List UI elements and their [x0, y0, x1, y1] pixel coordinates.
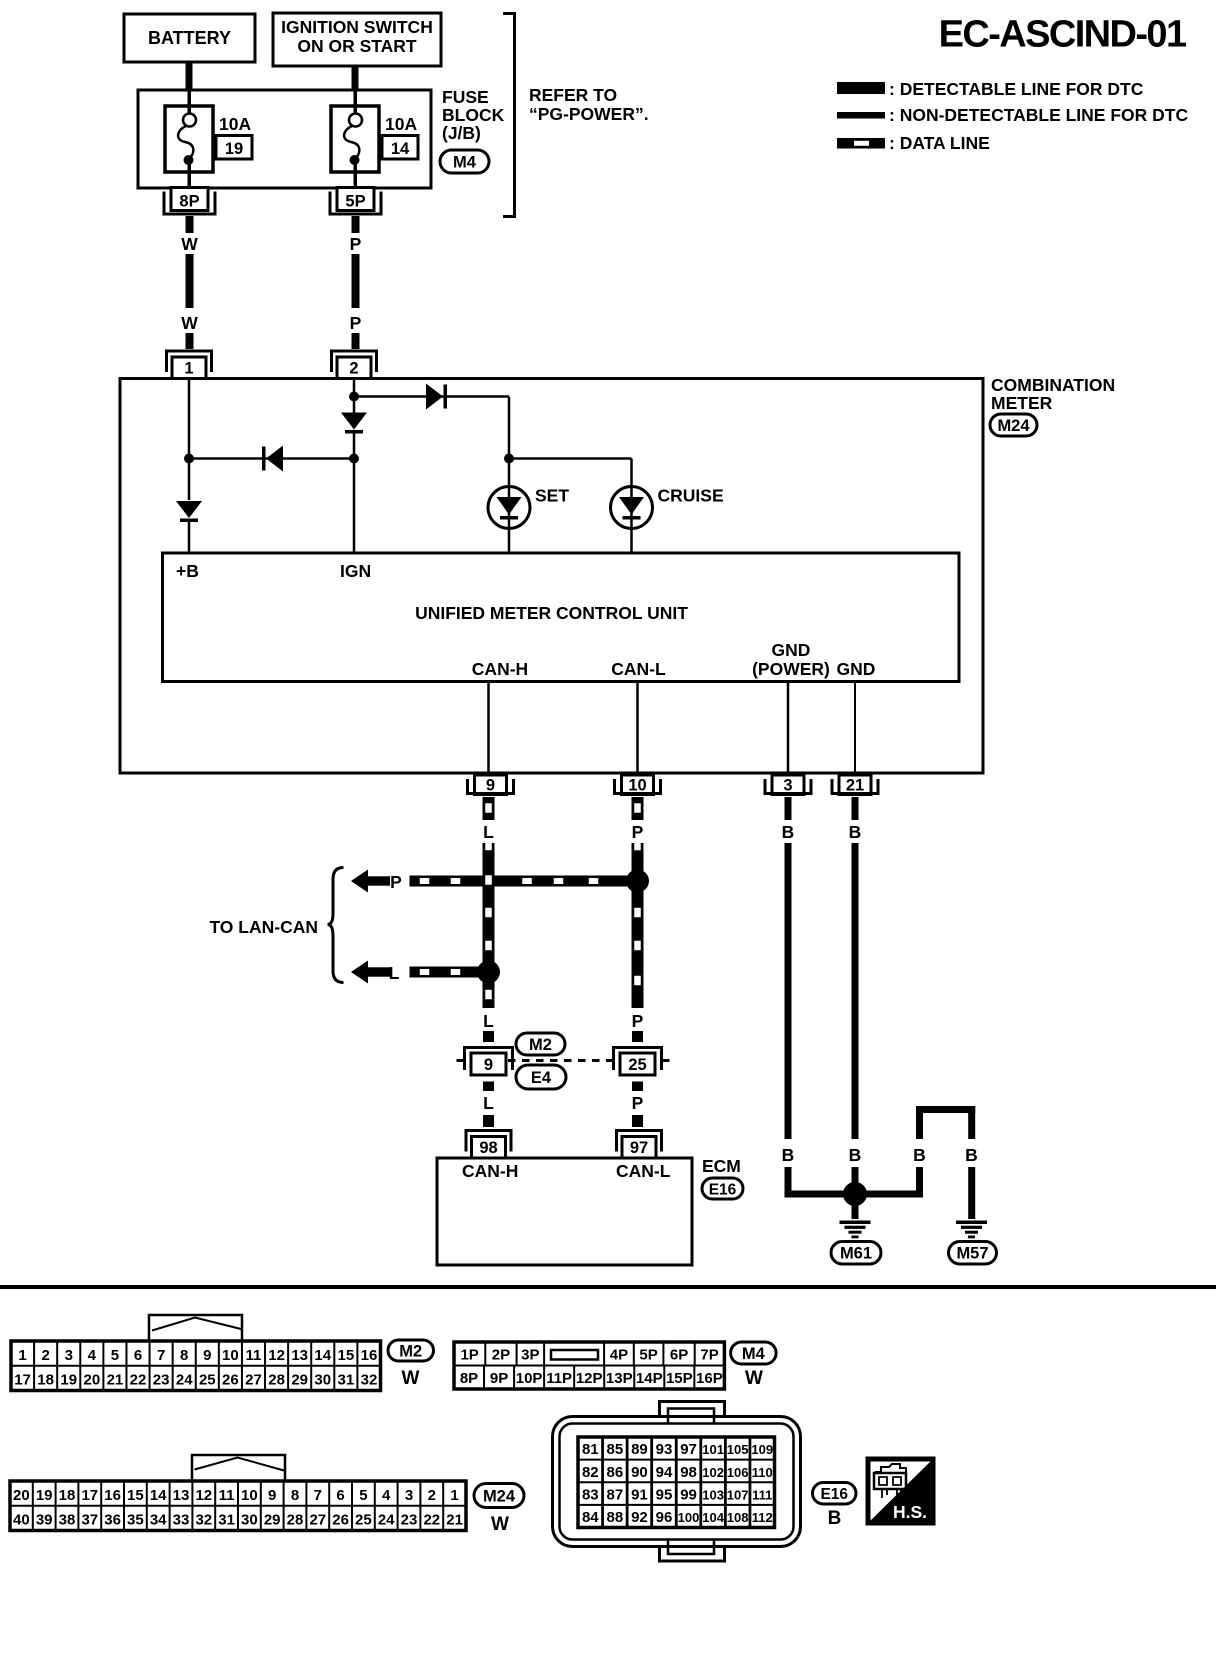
- wire fuse 14 to connector 5P: [354, 160, 358, 188]
- svg-text:107: 107: [727, 1487, 749, 1502]
- connector id oval M24 (meter): [990, 414, 1037, 436]
- terminal 21 (meter GND): [839, 775, 871, 795]
- data line stub below connector 9: [483, 1082, 494, 1092]
- svg-text:4: 4: [382, 1487, 391, 1504]
- svg-text:6P: 6P: [670, 1347, 688, 1364]
- svg-text:19: 19: [36, 1487, 53, 1504]
- svg-text:15P: 15P: [666, 1370, 693, 1387]
- svg-text:W: W: [181, 313, 198, 333]
- inline connector terminal 25 (M2/E4): [614, 1048, 662, 1071]
- svg-text:B: B: [849, 822, 862, 842]
- legend detectable line swatch: [837, 82, 885, 94]
- wire top branch to SET/CRUISE: [354, 395, 509, 398]
- svg-text:EC-ASCIND-01: EC-ASCIND-01: [939, 14, 1187, 56]
- svg-text:31: 31: [338, 1372, 355, 1389]
- svg-text:101: 101: [702, 1442, 724, 1457]
- svg-text:111: 111: [752, 1487, 772, 1502]
- data line stub above connector 25: [632, 1031, 643, 1042]
- svg-text:108: 108: [727, 1510, 749, 1525]
- svg-text:26: 26: [222, 1372, 239, 1389]
- fuse number box 19: [216, 136, 252, 160]
- svg-text:M2: M2: [529, 1036, 552, 1054]
- svg-text:E4: E4: [531, 1069, 552, 1087]
- svg-text:7P: 7P: [700, 1347, 718, 1364]
- connector view M24 id oval: [474, 1484, 524, 1508]
- brace for lan-can: [328, 868, 344, 983]
- svg-text:12P: 12P: [576, 1370, 603, 1387]
- svg-text:23: 23: [153, 1372, 170, 1389]
- svg-text:81: 81: [582, 1441, 599, 1458]
- svg-text:: DETECTABLE LINE FOR DTC: : DETECTABLE LINE FOR DTC: [889, 79, 1144, 99]
- connector view M24 grid: [10, 1481, 466, 1531]
- svg-text:5P: 5P: [639, 1347, 657, 1364]
- data line lan L: [410, 967, 481, 978]
- svg-text:B: B: [782, 822, 795, 842]
- svg-text:4: 4: [88, 1347, 97, 1364]
- svg-text:16: 16: [361, 1347, 378, 1364]
- data line CAN-H main segment: [483, 843, 495, 1008]
- svg-text:99: 99: [680, 1486, 697, 1503]
- svg-text:P: P: [632, 1093, 644, 1113]
- svg-text:18: 18: [59, 1487, 76, 1504]
- wire ignition to fuse block: [352, 66, 359, 91]
- wire W battery feed: [186, 216, 194, 233]
- svg-text:SET: SET: [535, 486, 569, 506]
- svg-text:84: 84: [582, 1509, 599, 1526]
- connector id oval E16 (ECM): [702, 1178, 743, 1199]
- svg-text:2: 2: [41, 1347, 49, 1364]
- svg-text:96: 96: [656, 1509, 673, 1526]
- svg-text:ON OR START: ON OR START: [297, 36, 417, 56]
- svg-text:14: 14: [314, 1347, 331, 1364]
- ground jumper n-shape: [916, 1106, 923, 1139]
- svg-text:104: 104: [702, 1510, 724, 1525]
- svg-text:UNIFIED METER CONTROL UNIT: UNIFIED METER CONTROL UNIT: [415, 603, 688, 623]
- svg-text:(J/B): (J/B): [442, 123, 481, 143]
- svg-text:13P: 13P: [606, 1370, 633, 1387]
- terminal 97 (ECM CAN-L): [617, 1131, 662, 1152]
- legend data line swatch: [837, 138, 885, 149]
- svg-text:B: B: [913, 1145, 926, 1165]
- svg-text:METER: METER: [991, 393, 1053, 413]
- svg-text:100: 100: [678, 1510, 700, 1525]
- connector view E16 bottom tab: [660, 1546, 725, 1561]
- svg-text:W: W: [181, 234, 198, 254]
- wire cross link at y458: [189, 457, 354, 460]
- svg-text:13: 13: [291, 1347, 308, 1364]
- svg-text:27: 27: [309, 1512, 326, 1529]
- svg-text:+B: +B: [176, 561, 199, 581]
- svg-text:IGNITION SWITCH: IGNITION SWITCH: [281, 17, 433, 37]
- svg-text:21: 21: [846, 777, 864, 795]
- wire through CRUISE lamp: [630, 487, 633, 554]
- svg-text:29: 29: [264, 1512, 281, 1529]
- wire P ignition feed: [352, 216, 360, 233]
- connector view M4 key slot: [551, 1350, 598, 1360]
- connector view E16 shell: [553, 1417, 801, 1547]
- svg-text:IGN: IGN: [340, 561, 371, 581]
- svg-text:7: 7: [314, 1487, 322, 1504]
- svg-text:90: 90: [631, 1464, 648, 1481]
- wire ground bus horizontal: [785, 1191, 924, 1198]
- node junction CAN-H / lan L: [477, 961, 500, 984]
- diode D2 (IGN branch): [341, 413, 367, 430]
- svg-text:83: 83: [582, 1486, 599, 1503]
- svg-text:17: 17: [14, 1372, 31, 1389]
- svg-text:18: 18: [37, 1372, 54, 1389]
- svg-text:105: 105: [727, 1442, 749, 1457]
- svg-text:9P: 9P: [490, 1370, 508, 1387]
- svg-text:TO LAN-CAN: TO LAN-CAN: [209, 917, 318, 937]
- wire fuse 19 to connector 8P: [188, 160, 192, 188]
- connector id oval M4: [440, 150, 489, 173]
- svg-text:BATTERY: BATTERY: [148, 28, 231, 48]
- svg-text:97: 97: [680, 1441, 697, 1458]
- svg-text:33: 33: [173, 1512, 190, 1529]
- node junction SET feed: [504, 454, 514, 464]
- svg-text:98: 98: [680, 1464, 697, 1481]
- svg-text:32: 32: [195, 1512, 212, 1529]
- svg-text:36: 36: [104, 1512, 121, 1529]
- fuse 10A #19: [165, 106, 213, 172]
- svg-text:(POWER): (POWER): [752, 659, 830, 679]
- svg-text:3: 3: [65, 1347, 73, 1364]
- wire GND POWER inside meter: [787, 682, 790, 773]
- wire junction to ground M61: [852, 1200, 859, 1219]
- svg-text:CAN-L: CAN-L: [616, 1161, 671, 1181]
- svg-text:20: 20: [13, 1487, 30, 1504]
- svg-text:31: 31: [218, 1512, 235, 1529]
- svg-text:BLOCK: BLOCK: [442, 105, 505, 125]
- wire B from terminal 21: [852, 797, 859, 820]
- node junction +B/IGN link left: [184, 454, 194, 464]
- svg-text:P: P: [632, 1011, 644, 1031]
- svg-text:: NON-DETECTABLE LINE FOR DTC: : NON-DETECTABLE LINE FOR DTC: [889, 105, 1188, 125]
- svg-text:109: 109: [751, 1442, 773, 1457]
- svg-text:B: B: [849, 1145, 862, 1165]
- svg-text:W: W: [491, 1514, 509, 1535]
- svg-text:3: 3: [405, 1487, 413, 1504]
- svg-text:17: 17: [81, 1487, 98, 1504]
- svg-text:85: 85: [607, 1441, 624, 1458]
- connector view M24 key: [192, 1455, 285, 1481]
- svg-text:10A: 10A: [385, 114, 417, 134]
- svg-text:P: P: [632, 822, 644, 842]
- svg-text:M4: M4: [742, 1345, 766, 1363]
- ground symbol M57: [956, 1221, 987, 1225]
- svg-text:25: 25: [628, 1056, 646, 1074]
- dashed link outer tick right: [662, 1059, 670, 1062]
- wire into fuse 19: [188, 90, 192, 114]
- connector id oval E4 (inline): [516, 1065, 566, 1089]
- wire GND inside meter: [854, 682, 856, 773]
- svg-text:5: 5: [111, 1347, 119, 1364]
- svg-text:: DATA LINE: : DATA LINE: [889, 133, 990, 153]
- combination meter box: [120, 379, 983, 774]
- connector view E16 id oval: [813, 1483, 857, 1505]
- wire IGN branch: [353, 380, 356, 413]
- svg-text:16: 16: [104, 1487, 121, 1504]
- svg-text:3P: 3P: [521, 1347, 539, 1364]
- data line lan P right of CAN-H: [495, 876, 632, 887]
- svg-text:10: 10: [222, 1347, 239, 1364]
- svg-text:88: 88: [607, 1509, 624, 1526]
- svg-text:38: 38: [59, 1512, 76, 1529]
- terminal 10 (meter CAN-L): [622, 775, 654, 795]
- svg-text:13: 13: [173, 1487, 190, 1504]
- data line CAN-H upper segment: [483, 797, 495, 820]
- svg-text:1: 1: [18, 1347, 26, 1364]
- diode D1 (to +B): [176, 501, 202, 518]
- H.S. connector icon: [875, 1464, 906, 1473]
- svg-text:92: 92: [631, 1509, 648, 1526]
- H.S. inspection mark: [868, 1459, 933, 1523]
- svg-text:21: 21: [446, 1512, 463, 1529]
- dashed connector link 9-25: [508, 1059, 618, 1062]
- fuse block box: [138, 90, 431, 188]
- data line CAN-L upper segment: [632, 797, 644, 820]
- data line lan P left of CAN-H: [410, 876, 483, 887]
- svg-text:COMBINATION: COMBINATION: [991, 375, 1115, 395]
- svg-text:CRUISE: CRUISE: [658, 486, 724, 506]
- diode D4 (top branch, pointing right): [426, 384, 443, 410]
- wire CAN-L inside meter: [636, 682, 639, 773]
- connector view M4 id oval: [731, 1342, 777, 1364]
- wire SET/CRUISE bus: [509, 457, 632, 460]
- svg-text:M24: M24: [997, 417, 1030, 435]
- svg-text:11: 11: [246, 1347, 262, 1364]
- svg-text:15: 15: [338, 1347, 355, 1364]
- svg-text:19: 19: [60, 1372, 77, 1389]
- terminal 2 combination meter: [332, 351, 377, 372]
- svg-text:8P: 8P: [460, 1370, 478, 1387]
- svg-text:27: 27: [245, 1372, 262, 1389]
- svg-text:26: 26: [332, 1512, 349, 1529]
- svg-text:22: 22: [423, 1512, 440, 1529]
- data line stub above connector 9: [483, 1031, 494, 1042]
- svg-text:24: 24: [378, 1512, 395, 1529]
- svg-text:12: 12: [268, 1347, 285, 1364]
- svg-text:25: 25: [199, 1372, 216, 1389]
- svg-text:16P: 16P: [696, 1370, 723, 1387]
- refer-to bracket: [503, 14, 515, 217]
- connector view E16 grid: [578, 1437, 775, 1528]
- svg-text:103: 103: [702, 1487, 724, 1502]
- lan arrow L: [351, 961, 368, 984]
- svg-text:P: P: [350, 234, 362, 254]
- svg-text:9: 9: [203, 1347, 211, 1364]
- svg-text:29: 29: [291, 1372, 308, 1389]
- svg-text:CAN-H: CAN-H: [462, 1161, 518, 1181]
- svg-text:10P: 10P: [516, 1370, 543, 1387]
- svg-text:CAN-H: CAN-H: [472, 659, 528, 679]
- svg-text:9: 9: [484, 1056, 493, 1074]
- wire +B branch: [188, 380, 191, 500]
- indicator lamp CRUISE: [611, 487, 653, 529]
- connector terminal 5P: [337, 188, 374, 211]
- svg-text:20: 20: [83, 1372, 100, 1389]
- diode D3 (cross link, pointing left): [266, 446, 283, 472]
- ground id oval M57: [949, 1242, 997, 1265]
- svg-text:30: 30: [314, 1372, 331, 1389]
- svg-text:91: 91: [631, 1486, 648, 1503]
- connector view M2 key: [149, 1315, 242, 1341]
- svg-text:25: 25: [355, 1512, 372, 1529]
- fuse number box 14: [382, 136, 418, 160]
- svg-text:8P: 8P: [179, 193, 199, 211]
- svg-text:86: 86: [607, 1464, 624, 1481]
- svg-text:2: 2: [349, 360, 358, 378]
- svg-text:2: 2: [428, 1487, 436, 1504]
- connector view E16 top tab: [660, 1402, 725, 1418]
- svg-text:P: P: [350, 313, 362, 333]
- svg-text:93: 93: [656, 1441, 673, 1458]
- svg-text:28: 28: [287, 1512, 304, 1529]
- svg-text:M61: M61: [840, 1245, 872, 1263]
- legend non-detectable line swatch: [837, 112, 885, 119]
- svg-text:M24: M24: [483, 1487, 516, 1505]
- svg-text:L: L: [483, 1093, 494, 1113]
- ECM box: [437, 1158, 692, 1265]
- svg-text:B: B: [965, 1145, 978, 1165]
- svg-text:95: 95: [656, 1486, 673, 1503]
- svg-text:35: 35: [127, 1512, 144, 1529]
- node junction top of IGN branch: [349, 392, 359, 402]
- connector view M2 id oval: [388, 1340, 434, 1361]
- svg-text:M4: M4: [453, 153, 477, 171]
- node ground junction: [843, 1182, 867, 1206]
- svg-text:14: 14: [391, 140, 410, 158]
- svg-text:39: 39: [36, 1512, 53, 1529]
- svg-text:34: 34: [150, 1512, 167, 1529]
- svg-text:GND: GND: [772, 640, 811, 660]
- svg-text:W: W: [402, 1368, 420, 1389]
- connector id oval M2 (inline): [516, 1033, 565, 1055]
- svg-text:5P: 5P: [345, 193, 365, 211]
- svg-text:ECM: ECM: [702, 1156, 741, 1176]
- wire into fuse 14: [354, 90, 358, 114]
- svg-text:1P: 1P: [460, 1347, 478, 1364]
- svg-text:3: 3: [783, 777, 792, 795]
- svg-text:98: 98: [479, 1139, 497, 1157]
- unified meter control unit box: [163, 553, 960, 682]
- svg-text:REFER TO: REFER TO: [529, 85, 617, 105]
- terminal 1 combination meter: [167, 351, 212, 372]
- svg-text:“PG-POWER”.: “PG-POWER”.: [529, 104, 649, 124]
- svg-text:9: 9: [486, 777, 495, 795]
- wire B from terminal 3: [785, 797, 792, 820]
- svg-text:8: 8: [291, 1487, 299, 1504]
- svg-text:FUSE: FUSE: [442, 87, 489, 107]
- svg-text:B: B: [828, 1508, 842, 1529]
- svg-text:4P: 4P: [610, 1347, 628, 1364]
- svg-text:B: B: [782, 1145, 795, 1165]
- svg-text:10: 10: [241, 1487, 258, 1504]
- inline connector terminal 9 (M2/E4): [465, 1048, 513, 1071]
- svg-text:22: 22: [130, 1372, 147, 1389]
- svg-text:9: 9: [268, 1487, 276, 1504]
- data line CAN-L main segment: [632, 843, 644, 1008]
- svg-text:94: 94: [656, 1464, 673, 1481]
- svg-text:14P: 14P: [636, 1370, 663, 1387]
- node junction IGN mid: [349, 454, 359, 464]
- svg-text:5: 5: [359, 1487, 367, 1504]
- svg-text:L: L: [483, 822, 494, 842]
- svg-text:11P: 11P: [546, 1370, 572, 1387]
- data line stub below connector 25: [632, 1082, 643, 1092]
- svg-text:8: 8: [180, 1347, 188, 1364]
- svg-text:24: 24: [176, 1372, 193, 1389]
- terminal 98 (ECM CAN-H): [466, 1131, 511, 1152]
- svg-text:6: 6: [336, 1487, 344, 1504]
- svg-text:2P: 2P: [492, 1347, 510, 1364]
- svg-text:112: 112: [752, 1510, 773, 1525]
- svg-text:28: 28: [268, 1372, 285, 1389]
- indicator lamp SET: [488, 487, 530, 529]
- svg-text:M2: M2: [399, 1342, 422, 1360]
- wire CAN-H inside meter: [487, 682, 490, 773]
- svg-text:12: 12: [195, 1487, 212, 1504]
- node junction CAN-L / lan P: [626, 870, 649, 893]
- svg-text:P: P: [390, 872, 402, 892]
- svg-text:82: 82: [582, 1464, 599, 1481]
- svg-text:7: 7: [157, 1347, 165, 1364]
- svg-text:14: 14: [150, 1487, 167, 1504]
- svg-text:106: 106: [727, 1465, 749, 1480]
- svg-text:30: 30: [241, 1512, 258, 1529]
- separator line: [0, 1285, 1216, 1289]
- fuse 10A #14: [331, 106, 379, 172]
- svg-text:32: 32: [361, 1372, 378, 1389]
- svg-text:CAN-L: CAN-L: [611, 659, 666, 679]
- svg-text:15: 15: [127, 1487, 144, 1504]
- svg-text:10: 10: [628, 777, 646, 795]
- svg-text:21: 21: [107, 1372, 124, 1389]
- data line stub above connector 98: [483, 1115, 494, 1127]
- svg-text:E16: E16: [709, 1181, 737, 1198]
- dashed link outer tick left: [457, 1059, 465, 1062]
- svg-text:11: 11: [219, 1487, 235, 1504]
- svg-text:H.S.: H.S.: [893, 1502, 927, 1522]
- svg-text:102: 102: [702, 1465, 724, 1480]
- svg-text:19: 19: [225, 140, 243, 158]
- connector view M4 grid: [454, 1342, 724, 1389]
- connector terminal 8P: [171, 188, 208, 211]
- svg-text:6: 6: [134, 1347, 142, 1364]
- svg-text:97: 97: [630, 1139, 648, 1157]
- svg-text:W: W: [745, 1368, 763, 1389]
- ground id oval M61: [831, 1242, 881, 1265]
- terminal 9 (meter CAN-H): [475, 775, 507, 795]
- ground symbol M61: [840, 1221, 871, 1225]
- wire through SET lamp: [508, 459, 511, 555]
- svg-text:89: 89: [631, 1441, 648, 1458]
- svg-text:37: 37: [81, 1512, 98, 1529]
- wire battery to fuse block: [186, 62, 193, 91]
- connector view M2 grid: [11, 1341, 381, 1391]
- svg-text:E16: E16: [820, 1486, 848, 1503]
- svg-text:L: L: [389, 963, 400, 983]
- terminal 3 (meter GND power): [772, 775, 804, 795]
- svg-text:40: 40: [13, 1512, 30, 1529]
- svg-text:23: 23: [401, 1512, 418, 1529]
- data line stub above connector 97: [632, 1115, 643, 1127]
- svg-text:1: 1: [184, 360, 193, 378]
- svg-text:GND: GND: [837, 659, 876, 679]
- svg-text:M57: M57: [956, 1245, 988, 1263]
- svg-text:L: L: [483, 1011, 494, 1031]
- ignition switch box: [273, 13, 441, 66]
